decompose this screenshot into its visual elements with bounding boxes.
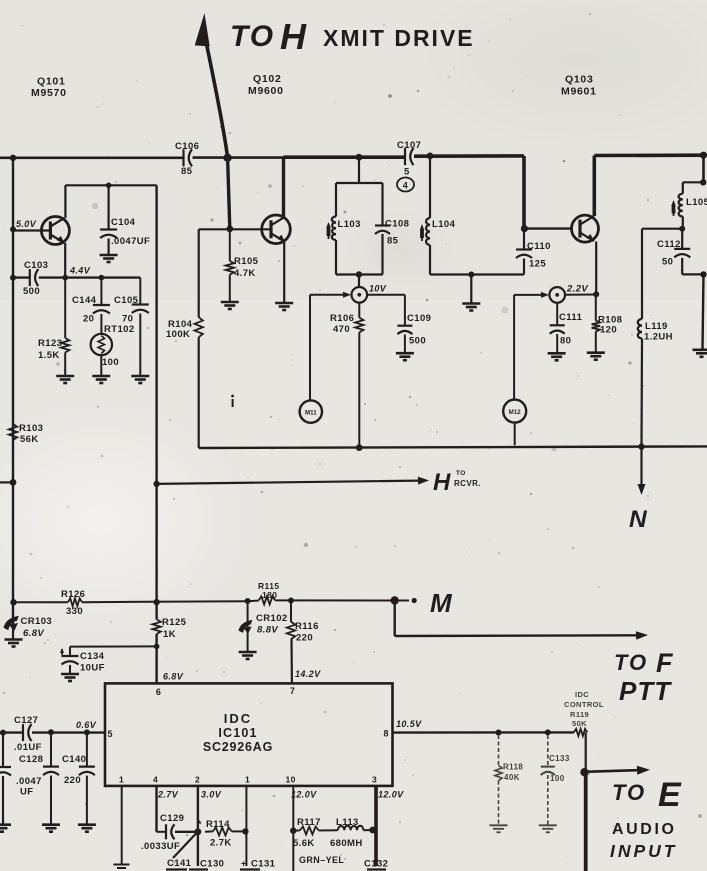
svg-text:100: 100 <box>102 357 119 368</box>
svg-text:7: 7 <box>290 686 295 696</box>
svg-text:+: + <box>241 859 247 869</box>
svg-text:85: 85 <box>387 236 399 247</box>
svg-text:8.8V: 8.8V <box>257 625 278 636</box>
svg-text:1.5K: 1.5K <box>38 350 60 361</box>
svg-text:IC101: IC101 <box>218 726 257 740</box>
svg-text:120: 120 <box>600 325 617 336</box>
svg-text:10.5V: 10.5V <box>396 719 422 729</box>
svg-text:R126: R126 <box>61 589 85 600</box>
svg-text:F: F <box>656 648 674 678</box>
svg-text:CR103: CR103 <box>21 616 53 627</box>
svg-text:125: 125 <box>529 259 546 270</box>
svg-text:IDC: IDC <box>575 690 589 699</box>
svg-text:C140: C140 <box>62 754 86 765</box>
svg-text:20: 20 <box>83 314 94 325</box>
svg-text:470: 470 <box>333 324 350 335</box>
svg-text:10V: 10V <box>369 284 387 294</box>
svg-text:.0047UF: .0047UF <box>111 236 150 247</box>
svg-text:1: 1 <box>119 775 124 785</box>
svg-text:AUDIO: AUDIO <box>612 821 677 838</box>
svg-text:14.2V: 14.2V <box>295 669 321 679</box>
svg-text:M9600: M9600 <box>248 85 284 97</box>
svg-text:1: 1 <box>245 775 250 785</box>
svg-text:PTT: PTT <box>619 676 672 706</box>
svg-text:C134: C134 <box>80 651 105 662</box>
svg-text:*: * <box>198 820 202 831</box>
svg-text:2: 2 <box>195 775 200 785</box>
svg-text:330: 330 <box>66 606 83 617</box>
svg-text:2.7K: 2.7K <box>210 838 232 849</box>
svg-text:5.0V: 5.0V <box>16 219 37 229</box>
svg-text:H: H <box>433 469 451 496</box>
svg-text:R103: R103 <box>19 423 43 434</box>
svg-text:10UF: 10UF <box>80 663 105 674</box>
svg-text:.0047: .0047 <box>16 776 42 787</box>
svg-text:C105: C105 <box>114 295 139 306</box>
svg-text:C133: C133 <box>549 754 570 763</box>
svg-text:R106: R106 <box>330 313 354 324</box>
svg-text:C112: C112 <box>657 239 681 250</box>
svg-text:L103: L103 <box>338 219 361 230</box>
svg-text:C129: C129 <box>160 813 184 824</box>
svg-text:2.7V: 2.7V <box>157 790 179 800</box>
svg-text:500: 500 <box>23 286 40 297</box>
svg-text:100: 100 <box>550 774 565 783</box>
svg-text:M9601: M9601 <box>561 86 597 98</box>
svg-text:M11: M11 <box>305 409 317 416</box>
svg-text:M12: M12 <box>509 409 522 416</box>
svg-text:L119: L119 <box>645 321 668 332</box>
svg-text:C130: C130 <box>200 859 224 870</box>
svg-text:12.0V: 12.0V <box>378 790 404 800</box>
svg-text:E: E <box>658 776 682 814</box>
svg-text:8: 8 <box>384 729 389 739</box>
svg-text:C144: C144 <box>72 295 97 306</box>
svg-text:40K: 40K <box>504 773 520 782</box>
svg-text:5: 5 <box>404 167 410 178</box>
svg-text:R119: R119 <box>570 710 589 719</box>
svg-text:C110: C110 <box>527 241 551 252</box>
svg-text:50: 50 <box>662 257 673 268</box>
svg-text:220: 220 <box>296 633 313 644</box>
svg-text:C141: C141 <box>167 858 192 869</box>
svg-text:C106: C106 <box>175 141 199 152</box>
svg-text:6.8V: 6.8V <box>23 628 44 639</box>
svg-text:6.8V: 6.8V <box>163 672 184 682</box>
svg-text:RT102: RT102 <box>104 324 135 335</box>
svg-text:C104: C104 <box>111 217 136 228</box>
svg-text:C103: C103 <box>24 260 48 271</box>
svg-text:R105: R105 <box>234 256 259 267</box>
svg-text:1K: 1K <box>163 629 176 640</box>
svg-text:L104: L104 <box>432 219 456 230</box>
svg-text:4: 4 <box>403 180 408 190</box>
svg-text:CONTROL: CONTROL <box>564 700 604 709</box>
svg-text:TO: TO <box>614 650 648 675</box>
svg-text:0.6V: 0.6V <box>76 720 97 730</box>
svg-text:C127: C127 <box>14 715 38 726</box>
svg-text:5.6K: 5.6K <box>293 838 315 849</box>
svg-text:5: 5 <box>108 729 113 739</box>
svg-text:TO: TO <box>612 780 646 805</box>
svg-text:IDC: IDC <box>224 711 252 726</box>
svg-text:R125: R125 <box>162 617 187 628</box>
svg-text:GRN–YEL: GRN–YEL <box>299 855 344 865</box>
svg-text:C109: C109 <box>407 313 431 324</box>
svg-text:100K: 100K <box>166 329 190 340</box>
svg-text:3: 3 <box>372 775 377 785</box>
svg-text:RCVR.: RCVR. <box>454 479 481 488</box>
svg-text:70: 70 <box>122 314 133 325</box>
svg-text:C111: C111 <box>559 312 583 323</box>
svg-text:Q102: Q102 <box>253 73 282 85</box>
svg-text:12.0V: 12.0V <box>291 790 317 800</box>
svg-text:680MH: 680MH <box>330 838 363 849</box>
svg-text:CR102: CR102 <box>256 613 288 624</box>
svg-text:C131: C131 <box>251 859 276 870</box>
svg-text:4.4V: 4.4V <box>69 266 91 276</box>
svg-text:180: 180 <box>262 590 277 600</box>
svg-text:SC2926AG: SC2926AG <box>203 740 273 754</box>
svg-text:R116: R116 <box>295 621 319 632</box>
svg-text:R123: R123 <box>38 338 62 349</box>
svg-text:4: 4 <box>153 775 158 785</box>
svg-text:L105: L105 <box>686 197 707 208</box>
svg-text:C108: C108 <box>385 219 409 230</box>
svg-text:M: M <box>430 588 453 618</box>
svg-text:.0033UF: .0033UF <box>141 841 180 852</box>
svg-text:56K: 56K <box>20 434 39 445</box>
svg-text:Q101: Q101 <box>37 76 66 88</box>
svg-text:85: 85 <box>181 166 193 177</box>
svg-text:6: 6 <box>156 687 161 697</box>
svg-text:TO: TO <box>456 470 466 477</box>
svg-text:500: 500 <box>409 336 426 347</box>
svg-text:L113: L113 <box>336 817 359 828</box>
svg-text:Q103: Q103 <box>565 74 594 86</box>
svg-text:80: 80 <box>560 336 571 347</box>
svg-text:1.2UH: 1.2UH <box>644 332 673 343</box>
svg-text:UF: UF <box>20 787 33 798</box>
svg-text:2.2V: 2.2V <box>566 284 588 295</box>
svg-text:C132: C132 <box>364 859 388 870</box>
svg-text:220: 220 <box>64 775 81 786</box>
svg-text:XMIT DRIVE: XMIT DRIVE <box>323 25 475 51</box>
svg-text:C107: C107 <box>397 140 421 151</box>
svg-text:TO: TO <box>230 20 275 53</box>
svg-text:INPUT: INPUT <box>610 841 678 861</box>
svg-text:R118: R118 <box>503 763 523 772</box>
svg-text:M9570: M9570 <box>31 87 67 99</box>
svg-text:4.7K: 4.7K <box>234 268 256 279</box>
svg-text:C128: C128 <box>19 754 43 765</box>
svg-text:N: N <box>629 506 648 533</box>
svg-text:R117: R117 <box>297 817 321 828</box>
svg-text:.01UF: .01UF <box>14 742 42 753</box>
svg-text:50K: 50K <box>572 719 587 728</box>
svg-text:3.0V: 3.0V <box>201 790 222 800</box>
svg-text:H: H <box>280 16 307 57</box>
svg-text:10: 10 <box>286 775 296 785</box>
svg-text:R114: R114 <box>206 819 230 830</box>
